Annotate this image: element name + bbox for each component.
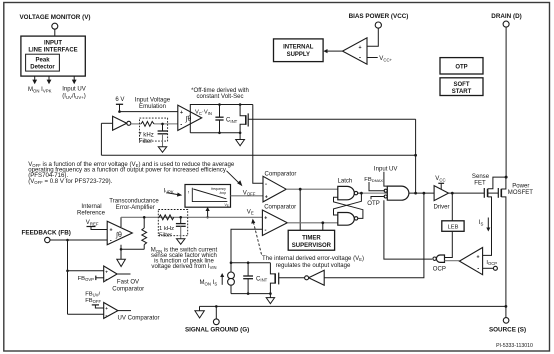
wire driver to LEB [451, 193, 453, 221]
transistor Q1 off-time discharge [240, 105, 248, 133]
svg-text:constant Volt-Sec: constant Volt-Sec [196, 94, 243, 100]
node rail junction [414, 154, 417, 157]
svg-text:f: f [188, 191, 189, 195]
svg-text:OCP: OCP [433, 267, 446, 273]
wire AND bottom to OCP gate [384, 200, 432, 259]
wire VM pin to input line interface [54, 29, 56, 36]
svg-text:VC·VIN: VC·VIN [195, 110, 212, 116]
wire VCVIN to comparator1 minus [253, 105, 263, 184]
wire FB rail down [66, 240, 69, 314]
resistor compensation vertical [142, 217, 147, 249]
wire drain vertical [505, 27, 507, 177]
wire dashed annotation arrow to VE [251, 219, 261, 255]
wire inverter2 to Q2 gate [279, 277, 305, 279]
svg-text:OTP: OTP [455, 64, 467, 70]
wire comparator2 minus to VE node [231, 229, 262, 263]
svg-text:Comparator: Comparator [265, 171, 297, 177]
wire error amp bottom to resistor [120, 245, 145, 259]
svg-text:SOURCE (S): SOURCE (S) [489, 326, 526, 333]
op-amp VCC comparator [343, 38, 368, 64]
svg-text:*Off-time derived with: *Off-time derived with [191, 88, 249, 94]
svg-text:Filter: Filter [139, 139, 152, 145]
svg-text:+: + [264, 216, 267, 222]
svg-text:INTERNAL: INTERNAL [283, 45, 314, 51]
svg-text:+: + [110, 228, 113, 234]
wire VOFF to comparator1 plus [231, 195, 264, 197]
svg-text:-: - [110, 239, 112, 245]
inverter U5 [305, 270, 325, 285]
wire VE rail [121, 216, 263, 219]
inverter U2 input voltage emulation [113, 116, 131, 130]
capacitor 1kHz filter [176, 217, 186, 239]
label Sense FET [472, 174, 490, 186]
svg-text:(IUV/IUV+): (IUV/IUV+) [62, 94, 86, 100]
svg-text:voltage derived from IVIN: voltage derived from IVIN [151, 264, 216, 270]
op-amp transconductance error amplifier [107, 221, 132, 245]
node VE capacitor rail top [230, 261, 271, 264]
ground 1kHz filter [177, 239, 185, 245]
arrow output MON IVPK left [32, 76, 37, 84]
svg-text:7 kHz: 7 kHz [138, 133, 153, 139]
gate AND pwm [384, 186, 409, 200]
svg-text:+: + [265, 195, 268, 201]
label FBUV FBOFF [85, 291, 101, 304]
svg-text:SIGNAL GROUND (G): SIGNAL GROUND (G) [185, 326, 249, 333]
node drain junction [505, 176, 508, 179]
svg-text:Input Voltage: Input Voltage [135, 98, 171, 104]
node filter junction [161, 123, 164, 126]
resistor 1kHz filter [159, 215, 174, 220]
svg-text:Transconductance: Transconductance [109, 199, 159, 205]
svg-text:MOSFET: MOSFET [508, 190, 534, 196]
wire rail into inverter [101, 122, 112, 124]
ground filter1 [158, 147, 166, 153]
svg-text:Internal: Internal [81, 204, 101, 210]
label 7 kHz Filter [138, 133, 153, 145]
svg-text:+: + [105, 306, 108, 311]
svg-text:FBOVP: FBOVP [78, 276, 95, 282]
svg-text:-: - [180, 123, 182, 129]
svg-text:VOLTAGE MONITOR (V): VOLTAGE MONITOR (V) [19, 14, 90, 21]
svg-text:1 kHz: 1 kHz [159, 226, 174, 232]
wire latch cross coupling A [334, 193, 362, 215]
svg-text:IOCP: IOCP [486, 260, 497, 266]
svg-text:Sense: Sense [472, 174, 490, 180]
svg-text:regulates the output voltage: regulates the output voltage [276, 263, 351, 269]
svg-text:VCC+: VCC+ [379, 56, 392, 62]
pin BIAS POWER (VCC) [349, 13, 409, 28]
pin DRAIN (D) [491, 13, 521, 27]
svg-text:+: + [105, 269, 108, 274]
label Input UV (IUV/IUV+) [62, 87, 86, 100]
wire UV output stub [118, 310, 131, 312]
svg-text:Detector: Detector [30, 65, 55, 71]
dashed box 7 kHz filter [140, 118, 168, 141]
supply VREF terminal [87, 227, 108, 230]
svg-text:Input UV: Input UV [62, 87, 86, 93]
wire LEB to OCP gate [445, 231, 453, 257]
svg-text:Driver: Driver [433, 205, 449, 211]
wire BIAS pin to comparator plus [367, 28, 378, 46]
svg-text:SOFT: SOFT [454, 82, 470, 88]
current source IOCP terminal [483, 266, 498, 270]
svg-text:Input UV: Input UV [374, 166, 398, 172]
ground error amp [117, 259, 126, 266]
label internal derived error voltage note [262, 256, 364, 269]
svg-text:Filter: Filter [159, 232, 172, 238]
svg-text:SUPPLY: SUPPLY [287, 52, 310, 58]
wire 6V to gm amp plus input [118, 104, 178, 113]
ground under CINT box [236, 133, 245, 146]
comparator UV [104, 303, 118, 320]
svg-text:6 V: 6 V [115, 97, 124, 103]
gate NAND latch upper [338, 186, 358, 199]
node source rail junction [505, 305, 508, 308]
svg-text:UV Comparator: UV Comparator [118, 316, 160, 322]
svg-text:The internal derived error-vol: The internal derived error-voltage (VE) [262, 256, 364, 262]
svg-text:CINT: CINT [256, 276, 268, 282]
wire annotation arrow to VOFF [227, 171, 243, 187]
svg-text:Reference: Reference [77, 210, 106, 216]
wire feedback rail left vertical [100, 123, 102, 155]
svg-text:VOFF: VOFF [243, 190, 256, 196]
svg-text:VCC: VCC [435, 176, 445, 182]
wire comparator2 output to latch [287, 221, 338, 230]
svg-text:OTP: OTP [367, 201, 379, 207]
svg-text:Peak: Peak [35, 58, 50, 64]
svg-text:VE: VE [247, 209, 254, 215]
svg-text:Comparator: Comparator [112, 287, 144, 293]
block SOFT START [440, 78, 483, 96]
wire FB to fast OV plus [68, 270, 104, 272]
block INPUT LINE INTERFACE [21, 36, 85, 76]
supply FBUV terminal [92, 305, 104, 308]
label VCC driver [435, 176, 445, 189]
label IS with arrow [479, 218, 491, 232]
svg-text:-: - [265, 182, 267, 188]
label MON note [151, 248, 218, 270]
svg-text:LEB: LEB [448, 225, 459, 231]
wire error amp output up [120, 217, 122, 227]
wire FBDMAX into AND [369, 182, 384, 191]
gate NAND latch lower [338, 213, 358, 226]
block OTP [440, 58, 483, 74]
transistor sense FET [483, 177, 507, 255]
transistor power MOSFET [498, 177, 506, 306]
node VE rail bottom [231, 292, 272, 295]
wire IVPK arrow into box [167, 193, 182, 197]
svg-text:Emulation: Emulation [139, 104, 166, 110]
wire gate line down to and-output [415, 119, 417, 193]
wire Q1 gate line [248, 118, 415, 120]
op-amp gm input voltage emulation [178, 105, 202, 130]
wire latch output to AND [360, 192, 387, 195]
label Off-time note [191, 88, 249, 100]
wire latch cross coupling B [334, 197, 363, 218]
svg-text:FBOFF: FBOFF [85, 298, 101, 304]
arrow output Input UV [72, 76, 77, 84]
wire fast OV output stub [117, 273, 130, 275]
label Transconductance Error-Amplifier [109, 199, 159, 212]
svg-text:PI-5333-113010: PI-5333-113010 [496, 343, 533, 349]
resistor 7kHz filter [141, 122, 154, 127]
dashed box 1 kHz filter [158, 210, 187, 236]
svg-text:LINE INTERFACE: LINE INTERFACE [28, 47, 77, 53]
block INTERNAL SUPPLY [274, 39, 324, 62]
svg-text:Error-Amplifier: Error-Amplifier [116, 205, 155, 211]
svg-text:+: + [476, 255, 479, 261]
pin FEEDBACK (FB) [22, 229, 71, 242]
wire OTP into AND [371, 197, 384, 200]
supply FBOVP terminal [96, 276, 104, 281]
label Power MOSFET [508, 184, 534, 197]
wire driver output to FET gates [449, 192, 499, 195]
label Internal Reference [77, 204, 106, 216]
current source MON IS [228, 263, 235, 294]
svg-text:-: - [105, 313, 107, 319]
wire FB to UV comparator bottom [68, 313, 104, 315]
block frequency curve function [185, 185, 231, 208]
svg-text:Comparator: Comparator [264, 205, 296, 211]
label VOFF note paragraph [28, 161, 235, 185]
svg-text:START: START [452, 89, 472, 95]
svg-text:BIAS POWER (VCC): BIAS POWER (VCC) [349, 13, 409, 20]
svg-text:INPUT: INPUT [44, 40, 62, 46]
capacitor CINT [215, 105, 237, 133]
svg-text:MON IVPK: MON IVPK [28, 87, 52, 93]
wire signal ground rail [200, 305, 506, 307]
comparator U4 PWM off [262, 210, 287, 236]
label 6 V supply [115, 97, 124, 104]
pin SIGNAL GROUND (G) [185, 305, 249, 333]
comparator OCP [445, 248, 483, 275]
ground under Q2 [266, 294, 274, 304]
svg-text:-: - [477, 266, 479, 272]
gate OCP and [433, 255, 445, 262]
svg-text:∫θ: ∫θ [115, 232, 122, 239]
label 1 kHz Filter [159, 226, 174, 239]
svg-text:CINT: CINT [226, 118, 238, 124]
svg-text:VREF: VREF [86, 220, 99, 226]
comparator U3 PWM on [263, 176, 286, 202]
block LEB [442, 221, 464, 232]
wire inverter to 7kHz filter to gm minus [131, 123, 141, 125]
op-amp Driver [433, 186, 449, 211]
pin SOURCE (S) [489, 306, 526, 333]
svg-text:Latch: Latch [338, 178, 353, 184]
capacitor 7kHz filter [158, 124, 168, 147]
block Peak Detector [26, 54, 60, 71]
svg-text:+: + [180, 110, 183, 116]
svg-text:DRAIN (D): DRAIN (D) [491, 13, 521, 20]
svg-text:TIMER: TIMER [302, 236, 321, 242]
svg-text:FET: FET [474, 180, 486, 186]
ground signal ground arrow [195, 306, 204, 318]
svg-text:IS: IS [479, 220, 484, 226]
svg-text:-: - [265, 228, 267, 234]
wire comparator1 output to latch [286, 188, 338, 231]
label Fast OV Comparator [112, 280, 144, 293]
svg-text:loop: loop [220, 191, 227, 195]
wire FB to error amp minus [50, 239, 107, 242]
arrow output MON IVPK right [47, 76, 52, 84]
svg-text:-: - [359, 55, 361, 62]
wire and-output down to inverter2 [324, 193, 424, 278]
svg-text:-: - [105, 276, 107, 282]
svg-text:MON IS: MON IS [200, 280, 218, 286]
comparator fast OV [104, 266, 117, 282]
svg-text:Power: Power [512, 184, 529, 190]
pin VOLTAGE MONITOR (V) [19, 14, 90, 29]
svg-text:FEEDBACK (FB): FEEDBACK (FB) [22, 229, 71, 236]
wire Input UV into AND top [384, 172, 387, 186]
wire emulation feedback rail [101, 154, 415, 156]
svg-text:SUPERVISOR: SUPERVISOR [292, 243, 332, 249]
block TIMER SUPERVISOR [288, 230, 334, 250]
label MON IS with arrow [200, 273, 225, 287]
svg-text:FBDMAX: FBDMAX [364, 177, 383, 183]
transistor Q2 VE discharge [270, 263, 278, 294]
node VCVIN box [190, 103, 253, 134]
svg-text:+: + [358, 45, 361, 51]
capacitor CINT2 [243, 263, 267, 294]
label Input Voltage Emulation [135, 98, 171, 111]
wire VCC+ stub [367, 57, 378, 59]
svg-text:FBUV/: FBUV/ [85, 291, 100, 297]
wire VE arrow into box bottom [206, 207, 210, 219]
wire arrow to internal supply [323, 49, 342, 53]
wire AND output to driver [409, 192, 434, 195]
svg-text:Fast OV: Fast OV [117, 280, 139, 286]
